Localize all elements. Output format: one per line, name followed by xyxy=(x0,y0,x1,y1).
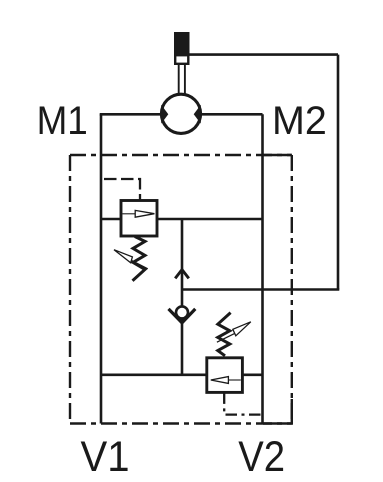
shaft double line left xyxy=(178,64,180,94)
enclosure boundary (dash-dot) bottom edge xyxy=(70,422,292,424)
enclosure boundary (dash-dot) top edge xyxy=(70,154,292,156)
check valve seat xyxy=(169,309,196,323)
wire: right main line M2-V2 xyxy=(261,114,264,423)
shaft double line right xyxy=(184,64,186,94)
relief valve V2 spring xyxy=(218,313,231,356)
wire: M2 port horizontal from motor xyxy=(199,113,263,116)
relief valve V1 adjustment arrow tail xyxy=(131,260,148,269)
relief valve V1 spring xyxy=(133,237,146,281)
shaft block lower white box xyxy=(175,55,188,64)
wire: top line from shaft block to far right xyxy=(190,53,339,56)
relief valve V2 internal line xyxy=(228,379,241,381)
wire: far right vertical line xyxy=(337,55,340,290)
relief valve V2 internal arrow (left) xyxy=(211,377,229,384)
motor right triangle xyxy=(194,105,201,124)
relief valve V1 adjustment arrow head xyxy=(114,250,132,263)
enclosure boundary top-right corner solid dash xyxy=(263,154,292,156)
enclosure boundary (dash-dot) left edge xyxy=(69,155,71,424)
check valve ball xyxy=(176,306,188,318)
relief valve V1 internal line xyxy=(123,213,136,215)
relief valve V2 adjustment arrow tail xyxy=(217,333,236,342)
relief valve V1 body xyxy=(121,201,157,237)
wire: M1 port horizontal to motor xyxy=(100,113,163,116)
relief valve V2 adjustment arrow head xyxy=(233,322,251,336)
svg-text:V1: V1 xyxy=(81,433,130,481)
drain dashed line from relief valve 2 xyxy=(224,392,262,414)
motor M circle xyxy=(161,94,200,133)
wire: horizontal through relief valve 1 xyxy=(101,218,263,221)
wire: relief valve 2 to right main line xyxy=(242,373,262,376)
relief valve V2 body xyxy=(207,358,243,393)
relief valve V1 internal arrow (right) xyxy=(135,210,154,217)
wire: bottom horizontal to relief valve 2 xyxy=(101,373,207,376)
svg-text:M1: M1 xyxy=(37,99,88,143)
enclosure boundary (dash-dot) right edge xyxy=(291,155,293,424)
motor left triangle xyxy=(161,105,168,124)
enclosure boundary bottom-right corner solid dash xyxy=(263,399,292,424)
svg-text:V2: V2 xyxy=(238,433,285,481)
wire: horizontal line to check valve junction xyxy=(182,288,339,291)
pilot dashed line to relief valve 1 xyxy=(104,179,140,201)
flow arrow up on check valve line xyxy=(175,270,189,279)
svg-text:M2: M2 xyxy=(272,99,327,143)
shaft block (black) xyxy=(174,32,190,55)
wire: left main line V1-M1 xyxy=(100,114,103,423)
wire: check valve vertical line xyxy=(181,219,184,375)
